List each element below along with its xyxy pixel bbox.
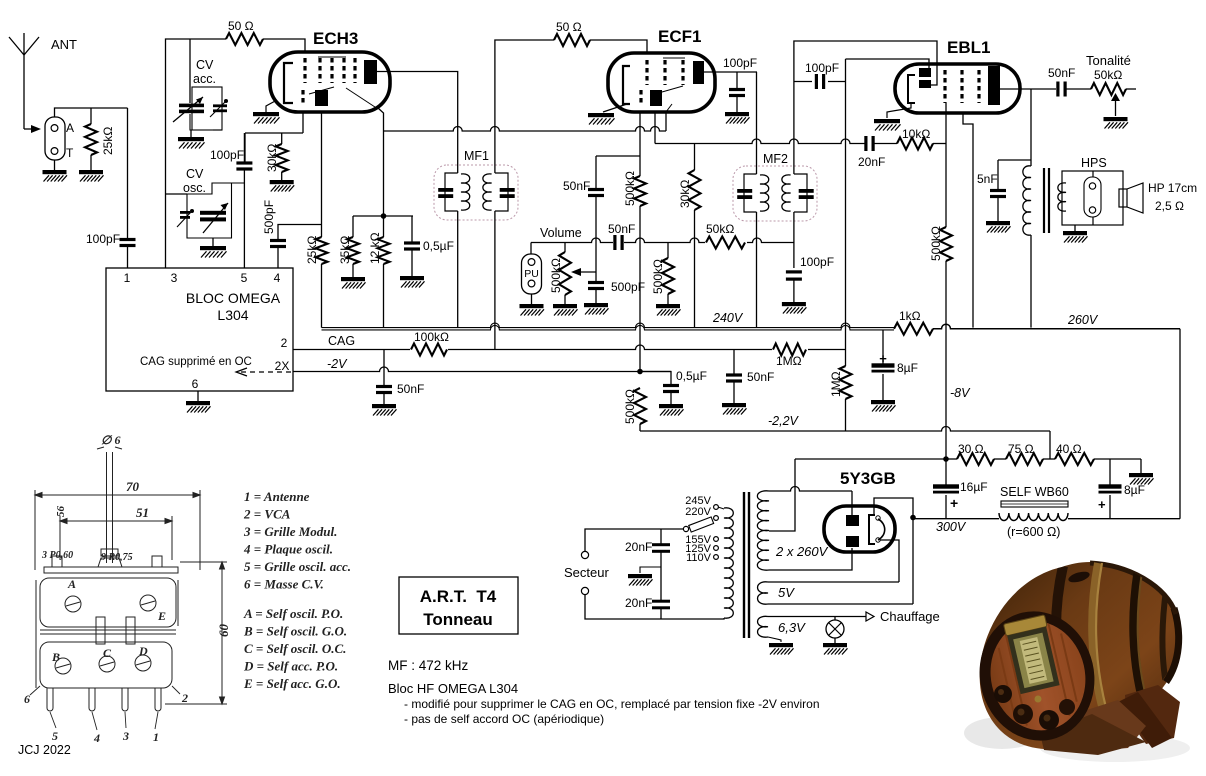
svg-text:6,3V: 6,3V [778, 620, 806, 635]
capacitor 0,5µF oscillator [411, 216, 413, 242]
transformer primary winding [724, 508, 733, 618]
variable capacitor CV acc [189, 39, 191, 103]
wire MF2 primary [756, 72, 758, 174]
svg-text:-2V: -2V [327, 357, 348, 371]
transformer MF2 box [733, 166, 817, 221]
volume wiper arrow [578, 271, 596, 273]
wire EBL1 diode AVC line [845, 59, 847, 366]
svg-text:A: A [66, 121, 74, 135]
svg-text:9 R0,75: 9 R0,75 [101, 552, 133, 563]
capacitor 50nF grid coupling [595, 156, 597, 189]
resistor 25kΩ antenna [90, 108, 92, 124]
output transformer primary [1030, 89, 1032, 166]
capacitor 100pF AVC feed [794, 81, 812, 83]
svg-text:500kΩ: 500kΩ [549, 258, 563, 293]
svg-text:12 kΩ: 12 kΩ [368, 232, 382, 264]
capacitor 50nF tonality [1056, 82, 1059, 97]
resistor 500kΩ AF load [667, 243, 669, 259]
loudspeaker HP [1119, 189, 1127, 207]
svg-text:2X: 2X [275, 359, 290, 373]
svg-text:acc.: acc. [193, 72, 216, 86]
wire AF rail triode anode to EBL1 grid [655, 139, 866, 144]
ground under 500pF [584, 303, 609, 315]
svg-text:0,5µF: 0,5µF [423, 239, 454, 253]
svg-text:SELF WB60: SELF WB60 [1000, 485, 1069, 499]
svg-text:1 = Antenne: 1 = Antenne [244, 489, 310, 504]
ground under tonality [1104, 117, 1129, 129]
svg-text:1kΩ: 1kΩ [899, 309, 921, 323]
svg-text:8µF: 8µF [1124, 483, 1145, 497]
svg-text:-8V: -8V [950, 386, 971, 400]
svg-text:56: 56 [55, 506, 67, 518]
resistor 30kΩ cathode [281, 133, 283, 144]
svg-text:0,5µF: 0,5µF [676, 369, 707, 383]
ground at ECH3 cathode [266, 100, 277, 112]
capacitor 20nF mains lower [652, 600, 670, 603]
svg-text:16µF: 16µF [960, 480, 988, 494]
capacitor 0,5µF AF [640, 372, 671, 386]
output transformer core [1043, 168, 1045, 233]
svg-text:Chauffage: Chauffage [880, 609, 940, 624]
ground under volume pot [553, 304, 578, 316]
resistor 500kΩ ECF1 grid leak [634, 176, 646, 206]
ground at EBL1 cathode [887, 103, 911, 118]
svg-text:ECH3: ECH3 [313, 29, 358, 48]
wire HV bottom to 5Y3GB plate2 [769, 548, 852, 570]
svg-text:CV: CV [196, 58, 214, 72]
wire MF1 primary bottom to HT rail [457, 211, 459, 328]
svg-text:∅ 6: ∅ 6 [101, 433, 120, 447]
svg-text:+: + [1098, 497, 1106, 512]
MF2 secondary winding [794, 174, 807, 212]
ground right of 40Ω [1140, 459, 1142, 473]
svg-text:51: 51 [136, 505, 149, 520]
MF2 secondary capacitor [799, 189, 814, 193]
svg-text:25kΩ: 25kΩ [305, 236, 319, 264]
svg-text:300V: 300V [936, 520, 967, 534]
svg-text:260V: 260V [1067, 313, 1099, 327]
tube 5Y3GB [824, 506, 895, 552]
svg-text:75 Ω: 75 Ω [1008, 442, 1034, 456]
wire ECF1 pentode anode to MF2 [704, 71, 757, 73]
capacitor 500pF to pin 4 [278, 225, 322, 241]
potentiometer 500kΩ volume [564, 243, 566, 253]
svg-text:50 Ω: 50 Ω [228, 19, 254, 33]
capacitor 16µF [945, 459, 947, 485]
wire EBL1 pentode grid down [945, 103, 947, 144]
6,3V winding [758, 616, 768, 637]
ground under 35kΩ [341, 277, 366, 289]
ground under 100pF detector [782, 302, 807, 314]
svg-text:2 = VCA: 2 = VCA [243, 507, 291, 522]
svg-text:50nF: 50nF [747, 370, 774, 384]
svg-text:50nF: 50nF [1048, 66, 1075, 80]
capacitor 500pF volume wiper [588, 281, 604, 284]
HV secondary winding 2x260V [757, 491, 769, 570]
capacitor 50nF CAG decoupling [383, 350, 385, 387]
svg-text:4: 4 [93, 731, 100, 745]
svg-text:60: 60 [216, 624, 231, 638]
ground under 0,5µF AF [659, 404, 684, 416]
MF1 primary capacitor [438, 188, 453, 192]
node junction g2/12k [381, 213, 387, 219]
svg-text:20nF: 20nF [625, 596, 652, 610]
svg-text:500kΩ: 500kΩ [623, 389, 637, 424]
svg-text:30 Ω: 30 Ω [958, 442, 984, 456]
wire EBL1 diode1 top [846, 59, 930, 68]
wire MF1 secondary top to 50Ω ECF1 [494, 211, 496, 350]
wire center tap to -8V node [795, 458, 946, 460]
transformer core [743, 492, 745, 638]
svg-text:50nF: 50nF [397, 382, 424, 396]
MF2 primary winding [744, 174, 757, 212]
svg-text:ANT: ANT [51, 37, 77, 52]
wire volume AF line [531, 238, 613, 243]
MF1 secondary winding [495, 173, 508, 211]
svg-text:CAG: CAG [328, 334, 355, 348]
svg-text:CV: CV [186, 167, 204, 181]
svg-text:HP 17cm: HP 17cm [1148, 181, 1197, 195]
ground under PU [531, 294, 533, 304]
resistor 30Ω [957, 453, 994, 465]
ground under 5nF [986, 221, 1011, 233]
BLOC OMEGA L304 box [106, 268, 293, 391]
wire 6,3V to chauffage [768, 616, 866, 618]
resistor 75Ω [1006, 453, 1043, 465]
antenna symbol [23, 55, 25, 129]
svg-text:110V: 110V [686, 552, 712, 564]
svg-text:osc.: osc. [183, 181, 206, 195]
svg-text:Volume: Volume [540, 226, 582, 240]
svg-text:100kΩ: 100kΩ [414, 330, 449, 344]
5V winding [758, 582, 768, 604]
ground under 30kΩ [270, 180, 295, 192]
svg-text:20nF: 20nF [625, 540, 652, 554]
svg-text:+: + [950, 495, 958, 511]
svg-text:MF1: MF1 [464, 149, 489, 163]
svg-text:1: 1 [124, 271, 131, 285]
wire antenna to terminal with arrow [24, 128, 31, 130]
svg-text:A.R.T. T4: A.R.T. T4 [420, 587, 497, 606]
wire top grid line ECH3 [166, 39, 227, 268]
ground under 100pF [725, 112, 750, 124]
MF2 primary capacitor [737, 189, 752, 193]
svg-text:20nF: 20nF [858, 155, 885, 169]
capacitor 100pF oscillator [243, 133, 245, 162]
svg-text:3 = Grille Modul.: 3 = Grille Modul. [243, 524, 337, 539]
MF1 secondary capacitor [500, 188, 515, 192]
wire HV top to 5Y3GB plate [769, 487, 852, 492]
capacitor 50nF series AF [613, 235, 616, 250]
tube EBL1 [895, 64, 1020, 113]
svg-text:5nF: 5nF [977, 172, 998, 186]
svg-text:(r=600 Ω): (r=600 Ω) [1007, 525, 1060, 539]
ground under 500kΩ AF load [656, 304, 681, 316]
svg-text:D = Self acc. P.O.: D = Self acc. P.O. [243, 659, 338, 674]
variable capacitor CV osc [200, 211, 226, 215]
svg-text:500kΩ: 500kΩ [623, 171, 637, 206]
svg-text:100pF: 100pF [86, 232, 120, 246]
ground 6,3V winding [768, 637, 781, 642]
svg-text:500pF: 500pF [262, 200, 276, 234]
resistor 1MΩ horizontal [772, 343, 808, 356]
capacitor 100pF antenna [127, 108, 129, 239]
svg-text:5Y3GB: 5Y3GB [840, 469, 896, 488]
svg-text:A: A [67, 577, 76, 591]
resistor 100kΩ CAG [410, 342, 448, 357]
resistor 50kΩ detector [705, 236, 747, 250]
svg-text:100pF: 100pF [723, 56, 757, 70]
svg-text:Tonalité: Tonalité [1086, 53, 1131, 68]
wire rail1 ECH3 to ECF1 cathode [383, 113, 385, 131]
svg-text:3: 3 [171, 271, 178, 285]
svg-text:HPS: HPS [1081, 156, 1107, 170]
svg-text:3: 3 [122, 729, 129, 743]
svg-text:6: 6 [192, 377, 199, 391]
svg-text:CAG supprimé en OC: CAG supprimé en OC [140, 356, 252, 368]
svg-text:1: 1 [153, 730, 159, 744]
resistor 500kΩ EBL1 grid [940, 227, 952, 261]
ground under lamp [823, 643, 848, 655]
svg-text:5: 5 [52, 729, 58, 743]
wire ECH3 cathode row [302, 112, 304, 133]
ground under 0,5µF [400, 276, 425, 288]
svg-text:BLOC OMEGA: BLOC OMEGA [186, 290, 281, 306]
HPS box [1062, 171, 1123, 225]
svg-text:30kΩ: 30kΩ [678, 180, 692, 208]
svg-text:30kΩ: 30kΩ [265, 144, 279, 172]
ground at ECF1 cathode [603, 104, 627, 112]
svg-text:100pF: 100pF [805, 61, 839, 75]
svg-text:2: 2 [281, 336, 288, 350]
transformer MF1 box [434, 165, 518, 220]
jack PU [530, 243, 532, 255]
wire terminal A up to top node [55, 108, 128, 117]
svg-text:2 x 260V: 2 x 260V [775, 544, 829, 559]
tube ECF1 [608, 53, 715, 112]
svg-text:Secteur: Secteur [564, 565, 609, 580]
wire filament2 to 5V [880, 540, 899, 582]
svg-text:+: + [879, 351, 887, 366]
ground under HPS [1074, 225, 1076, 231]
lamp [834, 617, 836, 621]
svg-text:B: B [51, 650, 60, 664]
wire pin5 line with 100pF osc [243, 183, 245, 268]
svg-text:- modifié pour supprimer le CA: - modifié pour supprimer le CAG en OC, r… [404, 697, 820, 711]
svg-text:1MΩ: 1MΩ [829, 371, 843, 397]
wire MF2 secondary top to EBL1 diode [794, 41, 937, 174]
capacitor 8µF HT filter [882, 330, 884, 364]
svg-text:35kΩ: 35kΩ [338, 236, 352, 264]
svg-text:2,5 Ω: 2,5 Ω [1155, 199, 1184, 213]
terminal block A/T [45, 117, 65, 160]
svg-text:T: T [66, 146, 74, 160]
svg-text:2: 2 [181, 691, 188, 705]
potentiometer 50kΩ tonality [1091, 83, 1126, 95]
resistor 10kΩ EBL1 grid stopper [897, 138, 933, 150]
wire 300V rail [913, 518, 999, 520]
svg-text:100pF: 100pF [210, 148, 244, 162]
svg-text:6 = Masse C.V.: 6 = Masse C.V. [244, 577, 324, 592]
wire ECH3 g2 line down [378, 108, 384, 216]
resistor 500kΩ to -2,2V [634, 388, 646, 424]
ground under 50nF CAG [372, 404, 397, 416]
variable capacitor CV osc box [166, 193, 188, 195]
wire EBL1 g2 to HT [963, 113, 973, 328]
wire 35k/0.5uF row [353, 215, 413, 217]
dashed arrow into block (CAG) [240, 371, 291, 373]
svg-text:MF2: MF2 [763, 152, 788, 166]
choke SELF WB60 [1001, 501, 1068, 507]
svg-text:ECF1: ECF1 [658, 27, 701, 46]
resistor 35kΩ [352, 216, 354, 237]
svg-text:L304: L304 [217, 307, 248, 323]
svg-text:-2,2V: -2,2V [768, 414, 800, 428]
svg-text:C = Self oscil. O.C.: C = Self oscil. O.C. [244, 641, 346, 656]
capacitor 8µF output [1109, 459, 1111, 485]
resistor 50Ω ECH3 grid [226, 33, 263, 45]
capacitor 100pF ECF1 anode [736, 72, 738, 89]
capacitor 20nF mains upper [660, 529, 662, 544]
svg-text:MF : 472 kHz: MF : 472 kHz [388, 658, 469, 673]
trimmer CV acc [213, 104, 227, 107]
svg-text:5: 5 [241, 271, 248, 285]
svg-text:50 Ω: 50 Ω [556, 20, 582, 34]
svg-text:Bloc HF OMEGA L304: Bloc HF OMEGA L304 [388, 681, 518, 696]
svg-text:C: C [103, 646, 112, 660]
title box A.R.T. T4 Tonneau [399, 577, 518, 634]
capacitor 5nF anode [997, 160, 999, 190]
resistor 50Ω ECF1 grid [554, 34, 590, 46]
svg-text:D: D [138, 644, 148, 658]
svg-text:500kΩ: 500kΩ [929, 226, 943, 261]
ground under 8µF [871, 400, 896, 412]
svg-text:A = Self oscil. P.O.: A = Self oscil. P.O. [243, 606, 343, 621]
svg-text:EBL1: EBL1 [947, 38, 990, 57]
output transformer secondary [1058, 183, 1066, 211]
trimmer CV osc [180, 211, 190, 214]
capacitor 20nF AF coupling [864, 136, 867, 151]
tube ECH3 [270, 52, 390, 112]
svg-text:50nF: 50nF [608, 222, 635, 236]
ground mains filter [640, 567, 661, 573]
svg-text:PU: PU [524, 268, 539, 280]
wire HT rail 240V/260V [322, 323, 895, 328]
svg-text:5V: 5V [778, 585, 795, 600]
wire -2V line from pin 2X [293, 367, 671, 372]
svg-text:500pF: 500pF [611, 280, 645, 294]
wire EBL1 anode out [1000, 88, 1031, 90]
svg-text:4 = Plaque oscil.: 4 = Plaque oscil. [243, 542, 333, 557]
wire ECF1 triode grid down [639, 112, 641, 176]
wire HV center tap to -8V [769, 459, 795, 531]
ground under 25kΩ [79, 170, 104, 182]
svg-text:Tonneau: Tonneau [423, 610, 493, 629]
svg-text:100pF: 100pF [800, 255, 834, 269]
ground under CV acc [190, 114, 213, 130]
svg-text:220V: 220V [685, 506, 711, 518]
svg-text:1MΩ: 1MΩ [776, 354, 802, 368]
voltage selector switch [683, 526, 688, 531]
svg-text:E: E [157, 609, 166, 623]
resistor 12kΩ [378, 237, 390, 264]
node -8V junction [943, 456, 949, 462]
wire ECF1 triode anode down to AF rail2 [654, 112, 656, 144]
resistor 40Ω [1055, 453, 1094, 465]
wire -2,2V rail [640, 427, 1050, 432]
svg-text:5 = Grille oscil. acc.: 5 = Grille oscil. acc. [244, 559, 351, 574]
wire ECF1 cathode to rail1 [665, 112, 667, 131]
wire 50nF coupling to grid [596, 155, 640, 157]
svg-text:50kΩ: 50kΩ [706, 222, 734, 236]
wire filament to 300V [874, 498, 913, 518]
wire MF2 secondary bottom to AF line [793, 212, 795, 243]
mains terminals [581, 551, 588, 558]
svg-text:70: 70 [126, 479, 140, 494]
mechanical drawing CV block [35, 447, 227, 711]
svg-text:40 Ω: 40 Ω [1056, 442, 1082, 456]
resistor 30kΩ ECF1 triode load [694, 144, 696, 171]
ground under CV osc [212, 238, 214, 246]
capacitor 50nF detector filter [733, 350, 735, 375]
resistor 25kΩ osc anode [316, 237, 328, 264]
selector taps [714, 505, 719, 510]
svg-text:B = Self oscil. G.O.: B = Self oscil. G.O. [243, 624, 347, 639]
svg-text:50kΩ: 50kΩ [1094, 68, 1122, 82]
svg-text:8µF: 8µF [897, 361, 918, 375]
svg-text:JCJ 2022: JCJ 2022 [18, 743, 71, 757]
node ECF1 grid bias junction [637, 369, 643, 375]
svg-text:E = Self acc. G.O.: E = Self acc. G.O. [243, 676, 341, 691]
svg-text:50nF: 50nF [563, 179, 590, 193]
wire mains bottom [585, 595, 724, 619]
svg-text:500kΩ: 500kΩ [651, 259, 665, 294]
wire mains top [585, 529, 683, 551]
svg-text:240V: 240V [712, 311, 744, 325]
wire CAG bus from pin 2 [293, 345, 846, 350]
wire ECH3 triode anode down [321, 113, 323, 237]
resistor 1kΩ HT [894, 323, 933, 335]
svg-text:3 P0,60: 3 P0,60 [41, 550, 73, 561]
capacitor 100pF detector bypass [793, 243, 795, 269]
wire ECH3 anode to MF1 [377, 72, 458, 174]
ground under terminal [54, 160, 56, 170]
svg-text:4: 4 [274, 271, 281, 285]
svg-text:- pas de self accord OC (apéri: - pas de self accord OC (apériodique) [404, 712, 604, 726]
resistor 1MΩ vertical [840, 366, 852, 399]
svg-text:6: 6 [24, 692, 30, 706]
svg-text:25kΩ: 25kΩ [101, 127, 115, 155]
svg-text:10kΩ: 10kΩ [902, 127, 930, 141]
MF1 primary winding [457, 163, 459, 173]
ground under 50nF detector [722, 403, 747, 415]
